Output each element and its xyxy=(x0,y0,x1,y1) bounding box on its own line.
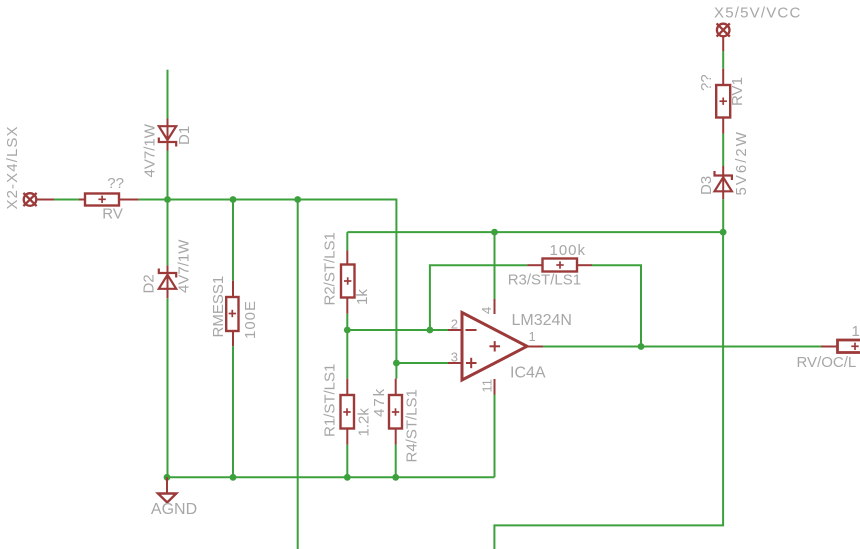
wire long vertical at x=298 xyxy=(297,200,299,549)
junction dot rail/RMESS1 bottom xyxy=(230,474,237,481)
svg-text:2: 2 xyxy=(451,317,458,332)
svg-text:X5/5V/VCC: X5/5V/VCC xyxy=(714,5,802,22)
svg-text:D3: D3 xyxy=(698,176,715,195)
svg-text:D1: D1 xyxy=(176,126,193,145)
svg-text:RV1: RV1 xyxy=(729,77,746,106)
svg-text:5V6/2W: 5V6/2W xyxy=(733,130,750,195)
svg-text:RV/OC/L: RV/OC/L xyxy=(797,354,857,371)
ground symbol AGND xyxy=(158,477,176,502)
svg-text:47k: 47k xyxy=(371,387,388,417)
diode D3 zener xyxy=(715,166,732,199)
wire feedback left leg to pin2 node xyxy=(430,265,527,330)
junction dot rail/vertical xyxy=(294,196,301,203)
resistor RV1 xyxy=(716,69,730,134)
svg-text:11: 11 xyxy=(480,379,495,393)
resistor RMESS1 xyxy=(226,281,238,347)
svg-text:??: ?? xyxy=(698,74,715,91)
wire feedback right leg from R3 to output xyxy=(592,265,641,346)
connector RV/OC/L xyxy=(821,340,860,353)
wire X2 to RV xyxy=(54,199,79,201)
wire node to opamp pin3 xyxy=(396,362,448,364)
wire R4 bottom to rail xyxy=(395,445,397,478)
junction dot pin3 node at R4 xyxy=(393,360,400,367)
resistor RV xyxy=(79,194,139,206)
svg-text:AGND: AGND xyxy=(151,501,197,518)
resistor R3 xyxy=(527,259,592,272)
junction dot rail/RMESS1 xyxy=(230,196,237,203)
wire D3 to bus junction xyxy=(722,199,724,232)
wire RMESS1 to bottom rail xyxy=(232,346,234,477)
svg-text:1k: 1k xyxy=(354,289,371,305)
diode D1 zener xyxy=(159,119,176,151)
svg-text:R3/ST/LS1: R3/ST/LS1 xyxy=(508,272,581,289)
wire bus junction down and left to bottom edge xyxy=(494,232,723,549)
connector X5 pin symbol xyxy=(717,23,730,51)
svg-text:4V7/1W: 4V7/1W xyxy=(142,123,159,177)
op-amp IC4A xyxy=(448,299,543,395)
wire node to opamp pin2 xyxy=(347,329,448,331)
junction dot pin2 node at R2 xyxy=(344,327,351,334)
junction dot feedback at pin2 wire xyxy=(427,327,434,334)
wire opamp output to RV/OC/L xyxy=(543,346,821,348)
junction dot rail/R4 bottom xyxy=(392,474,399,481)
svg-text:R4/ST/LS1: R4/ST/LS1 xyxy=(404,389,421,462)
svg-text:IC4A: IC4A xyxy=(510,364,546,381)
wire bottom ground rail xyxy=(167,476,494,478)
svg-text:??: ?? xyxy=(107,175,124,192)
svg-text:R2/ST/LS1: R2/ST/LS1 xyxy=(322,232,339,305)
svg-text:D2: D2 xyxy=(141,274,158,293)
svg-text:1: 1 xyxy=(529,329,536,344)
junction dot VCC bus right xyxy=(720,229,727,236)
svg-text:LM324N: LM324N xyxy=(512,312,572,329)
wire R1 bottom to rail xyxy=(346,445,348,478)
wire node down to R1 xyxy=(346,330,348,379)
svg-text:RMESS1: RMESS1 xyxy=(210,276,227,338)
resistor R2 xyxy=(341,251,355,314)
svg-text:X2-X4/LSX: X2-X4/LSX xyxy=(4,125,21,209)
junction dot AGND xyxy=(164,474,171,481)
diode D2 zener xyxy=(159,265,176,298)
wire D2 to bottom rail xyxy=(167,298,169,477)
wire horizontal bus y=232 xyxy=(347,231,723,233)
wire D1 to rail xyxy=(167,151,169,200)
junction dot VCC bus pin4 xyxy=(491,229,498,236)
svg-text:4V7/1W: 4V7/1W xyxy=(176,239,193,293)
svg-text:1: 1 xyxy=(852,323,860,340)
wire RV1 to D3 xyxy=(722,134,724,167)
wire opamp pin11 down to bottom rail xyxy=(494,395,496,478)
wire rail to D2 xyxy=(167,200,169,266)
wire R2 bottom to node xyxy=(346,314,348,330)
wire corner to R2 top xyxy=(346,232,348,250)
junction dot rail/D1 xyxy=(164,196,171,203)
wire X5 to RV1 xyxy=(722,51,724,69)
svg-text:RV: RV xyxy=(102,206,123,223)
resistor R1 xyxy=(341,379,355,445)
svg-text:100E: 100E xyxy=(242,300,259,339)
junction dot rail/R1 bottom xyxy=(344,474,351,481)
junction dot output/feedback xyxy=(638,343,645,350)
svg-text:1.2k: 1.2k xyxy=(356,408,373,437)
connector X2-X4 pin symbol xyxy=(23,193,54,206)
wire vertical D1 top open end xyxy=(167,70,169,119)
svg-text:3: 3 xyxy=(451,350,458,365)
wire VCC bus down to opamp pin4 xyxy=(494,232,496,299)
svg-text:4: 4 xyxy=(479,307,494,314)
wire rail to RMESS1 xyxy=(232,200,234,281)
svg-text:R1/ST/LS1: R1/ST/LS1 xyxy=(322,364,339,437)
svg-text:100k: 100k xyxy=(550,242,587,259)
resistor R4 xyxy=(389,379,402,445)
wire net N$1 rail from RV to corner down through R4 xyxy=(139,200,397,379)
